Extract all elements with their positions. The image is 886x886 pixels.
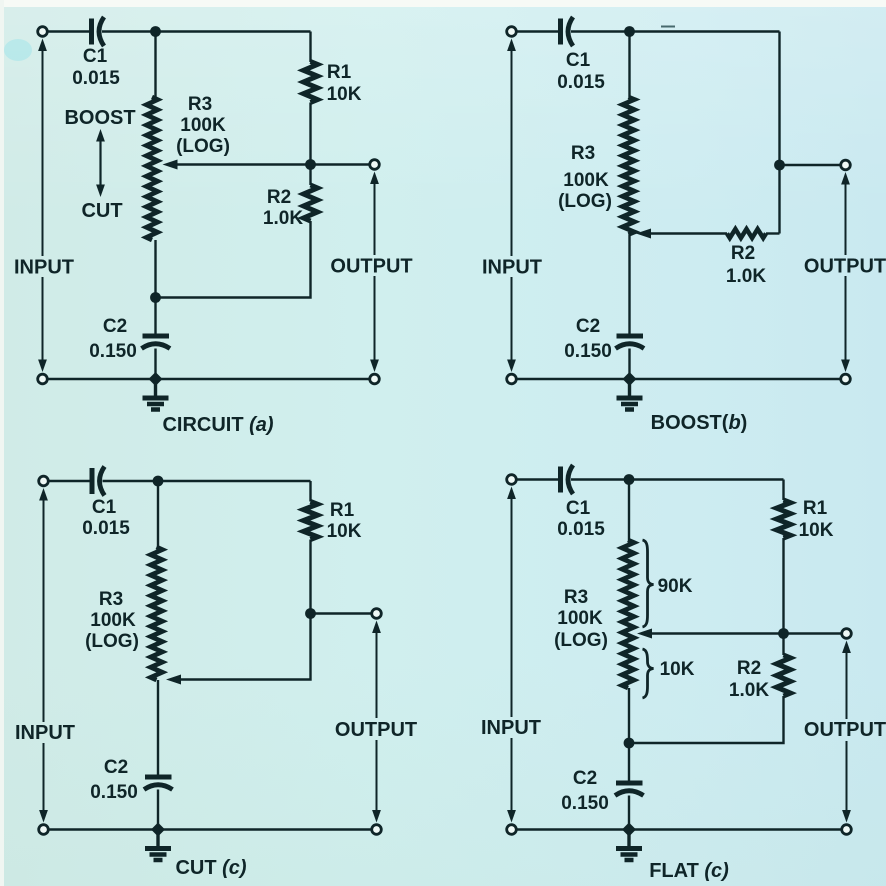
wire R1 to mid junction (d): [782, 538, 784, 634]
wire mid junction to R2 (a): [309, 165, 311, 186]
wire mid junction to R2 (d): [782, 634, 784, 656]
wire output measure arrow (d): [842, 641, 851, 823]
wire top junction to R3 (b): [628, 32, 630, 98]
svg-text:R3: R3: [571, 143, 595, 164]
svg-text:FLAT (c): FLAT (c): [649, 860, 729, 882]
node top junction (a): [150, 26, 161, 37]
svg-text:INPUT: INPUT: [14, 257, 74, 279]
capacitor C2 (a): [142, 336, 171, 349]
svg-text:CUT (c): CUT (c): [175, 857, 246, 879]
brace 10K section (d): [643, 649, 654, 698]
wire bottom rail (b): [516, 378, 840, 380]
capacitor C2 (b): [616, 336, 645, 349]
background cyan smudge: [4, 39, 32, 61]
terminal output (b): [841, 160, 851, 170]
svg-text:C2: C2: [103, 316, 127, 337]
svg-text:R2: R2: [731, 243, 755, 264]
svg-text:100K: 100K: [563, 170, 609, 191]
svg-text:INPUT: INPUT: [482, 257, 542, 279]
wire R3 to bottom junction (a): [154, 240, 156, 298]
svg-text:C1: C1: [83, 46, 108, 67]
resistor R2 (d): [777, 655, 791, 696]
ground (c): [145, 830, 171, 861]
resistor R3 potentiometer (d): [622, 540, 634, 688]
resistor R1 (d): [777, 500, 791, 538]
svg-text:R3: R3: [99, 589, 123, 610]
wire top junction to R3 (a): [154, 32, 156, 98]
wire C2 to bottom rail (b): [628, 349, 630, 380]
node mid junction (a): [305, 159, 316, 170]
resistor R2 (a): [304, 185, 318, 221]
svg-text:1.0K: 1.0K: [263, 208, 303, 229]
svg-text:100K: 100K: [180, 115, 226, 136]
terminal input top (a): [38, 27, 48, 37]
resistor R2 (b): [727, 229, 766, 238]
terminal input bottom (d): [507, 825, 517, 835]
wire corner down to R1 (d): [782, 480, 784, 501]
svg-text:10K: 10K: [327, 521, 362, 542]
svg-text:R1: R1: [327, 62, 352, 83]
svg-text:R3: R3: [188, 94, 212, 115]
node bottom junction (c): [151, 823, 165, 837]
wire R3 bottom to C2 (d): [628, 743, 630, 781]
wire input measure arrow (a): [38, 39, 47, 373]
svg-text:BOOST: BOOST: [64, 107, 135, 129]
ground (a): [143, 379, 169, 410]
node R3 bottom junction (d): [624, 738, 635, 749]
wire junction down and left to wiper (c): [176, 614, 311, 680]
wire bottom rail (a): [47, 378, 369, 380]
wire C2 to bottom rail (a): [154, 349, 156, 380]
wire C2 to bottom rail (c): [157, 790, 159, 830]
capacitor C1 (b): [561, 17, 574, 46]
terminal output (c): [372, 609, 382, 619]
arrow boost-cut (a): [96, 129, 105, 197]
wire R2 line left segment (b): [651, 232, 727, 234]
svg-text:C1: C1: [92, 497, 117, 518]
node top junction (b): [624, 26, 635, 37]
brace 90K section (d): [643, 540, 654, 627]
wire output measure arrow (a): [370, 172, 379, 373]
arrow wiper into R3 (a): [163, 160, 178, 170]
svg-text:100K: 100K: [557, 608, 603, 629]
wire junction to output (b): [780, 164, 841, 166]
capacitor C2 (d): [615, 783, 644, 796]
terminal output (a): [370, 160, 380, 170]
background top white strip: [0, 0, 886, 7]
wire input to C1 (c): [48, 480, 91, 482]
svg-text:0.015: 0.015: [72, 68, 120, 89]
capacitor C2 (c): [144, 777, 173, 790]
terminal output bottom (d): [842, 825, 852, 835]
resistor R1 (a): [304, 62, 318, 103]
svg-text:OUTPUT: OUTPUT: [804, 256, 886, 278]
svg-text:0.150: 0.150: [90, 782, 138, 803]
wire C1 to corner (b): [571, 30, 780, 32]
arrow wiper into R3 (d): [637, 629, 652, 639]
wire R2 down and left to R3 bottom (d): [629, 696, 784, 743]
wire R3 bottom to C2 (c): [157, 680, 159, 775]
svg-text:0.150: 0.150: [89, 341, 137, 362]
terminal input top (b): [507, 27, 517, 37]
svg-text:100K: 100K: [90, 610, 136, 631]
terminal input top (c): [39, 476, 49, 486]
wire bottom rail (c): [48, 828, 371, 830]
wire top junction to R3 (d): [628, 480, 630, 541]
node bottom junction (d): [622, 823, 636, 837]
wire R2 down and left to R3 bottom (a): [156, 221, 311, 298]
resistor R1 (c): [304, 502, 318, 540]
wire R3 bottom to C2 (b): [628, 235, 630, 335]
node bottom junction (b): [623, 372, 637, 386]
terminal output bottom (b): [841, 374, 851, 384]
svg-text:R1: R1: [803, 498, 828, 519]
svg-text:10K: 10K: [660, 659, 695, 680]
capacitor C1 (a): [92, 17, 105, 46]
background left white strip: [0, 0, 4, 886]
wire R1 to mid junction (c): [309, 540, 311, 614]
capacitor C1 (d): [561, 465, 574, 494]
svg-text:(LOG): (LOG): [554, 630, 608, 651]
terminal output (d): [842, 629, 852, 639]
svg-text:R2: R2: [737, 658, 761, 679]
wire input to C1 (d): [516, 478, 560, 480]
capacitor C1 (c): [92, 467, 105, 496]
wire R1 to mid junction (a): [309, 103, 311, 165]
svg-text:10K: 10K: [327, 84, 362, 105]
arrow wiper into R3 bottom (b): [636, 229, 651, 239]
wire right side down (b): [778, 32, 780, 234]
terminal output bottom (c): [372, 825, 382, 835]
svg-text:C2: C2: [104, 757, 128, 778]
resistor R3 potentiometer (a): [146, 97, 157, 240]
wire input to C1 (a): [47, 30, 91, 32]
node top junction (d): [624, 474, 635, 485]
svg-text:CIRCUIT (a): CIRCUIT (a): [162, 414, 273, 436]
wire R2 line right segment (b): [766, 232, 780, 234]
wire top junction to R3 (c): [157, 481, 159, 547]
svg-text:C2: C2: [576, 316, 600, 337]
svg-text:0.015: 0.015: [557, 519, 605, 540]
svg-text:(LOG): (LOG): [176, 136, 230, 157]
wire input measure arrow (c): [39, 488, 48, 823]
svg-text:1.0K: 1.0K: [729, 680, 769, 701]
wire wiper line (a): [174, 163, 371, 165]
terminal input top (d): [507, 475, 517, 485]
svg-text:C1: C1: [566, 498, 591, 519]
terminal input bottom (a): [38, 374, 48, 384]
artifact dash above rail (b): [661, 26, 675, 28]
ground (d): [616, 830, 642, 861]
svg-text:0.015: 0.015: [82, 518, 130, 539]
wire R3 to bottom junction (d): [628, 688, 630, 743]
svg-text:C2: C2: [573, 768, 597, 789]
svg-text:R2: R2: [267, 187, 291, 208]
wire bottom rail (d): [516, 828, 841, 830]
svg-text:OUTPUT: OUTPUT: [804, 719, 886, 741]
arrow wiper into R3 bottom (c): [166, 675, 181, 685]
svg-text:(LOG): (LOG): [558, 191, 612, 212]
node R3 bottom junction (a): [150, 292, 161, 303]
node output junction (b): [774, 160, 785, 171]
svg-text:R3: R3: [564, 587, 588, 608]
resistor R3 potentiometer (c): [151, 547, 163, 680]
terminal input bottom (c): [39, 825, 49, 835]
wire wiper line (d): [645, 632, 843, 634]
node mid junction (d): [778, 628, 789, 639]
node top junction (c): [153, 476, 164, 487]
svg-text:0.015: 0.015: [557, 72, 605, 93]
svg-text:R1: R1: [330, 500, 355, 521]
svg-text:1.0K: 1.0K: [726, 266, 766, 287]
wire input measure arrow (b): [507, 39, 516, 373]
wire C2 to bottom rail (d): [628, 796, 630, 830]
svg-text:0.150: 0.150: [561, 793, 609, 814]
ground (b): [617, 379, 643, 410]
wire C1 to corner (a): [102, 30, 311, 32]
node bottom junction (a): [149, 372, 163, 386]
svg-text:OUTPUT: OUTPUT: [335, 719, 417, 741]
wire C1 to corner (c): [103, 480, 311, 482]
wire junction to output (c): [311, 612, 372, 614]
svg-text:0.150: 0.150: [564, 341, 612, 362]
svg-text:CUT: CUT: [81, 200, 122, 222]
wire output measure arrow (c): [372, 621, 381, 823]
svg-text:C1: C1: [566, 50, 591, 71]
wire C1 to corner (d): [571, 478, 784, 480]
wire R3 bottom to C2 (a): [154, 298, 156, 335]
node mid junction (c): [305, 608, 316, 619]
terminal input bottom (b): [507, 374, 517, 384]
svg-text:INPUT: INPUT: [481, 717, 541, 739]
svg-text:OUTPUT: OUTPUT: [330, 256, 412, 278]
terminal output bottom (a): [370, 374, 380, 384]
svg-text:(LOG): (LOG): [85, 631, 139, 652]
wire input measure arrow (d): [507, 487, 516, 823]
svg-text:INPUT: INPUT: [15, 722, 75, 744]
wire corner down to R1 (c): [309, 481, 311, 502]
resistor R3 potentiometer (b): [623, 97, 635, 235]
wire corner down to R1 (a): [309, 32, 311, 63]
svg-text:BOOST(b): BOOST(b): [651, 412, 748, 434]
wire output measure arrow (b): [841, 172, 850, 372]
svg-text:10K: 10K: [799, 520, 834, 541]
svg-text:90K: 90K: [658, 576, 693, 597]
wire input to C1 (b): [516, 30, 560, 32]
